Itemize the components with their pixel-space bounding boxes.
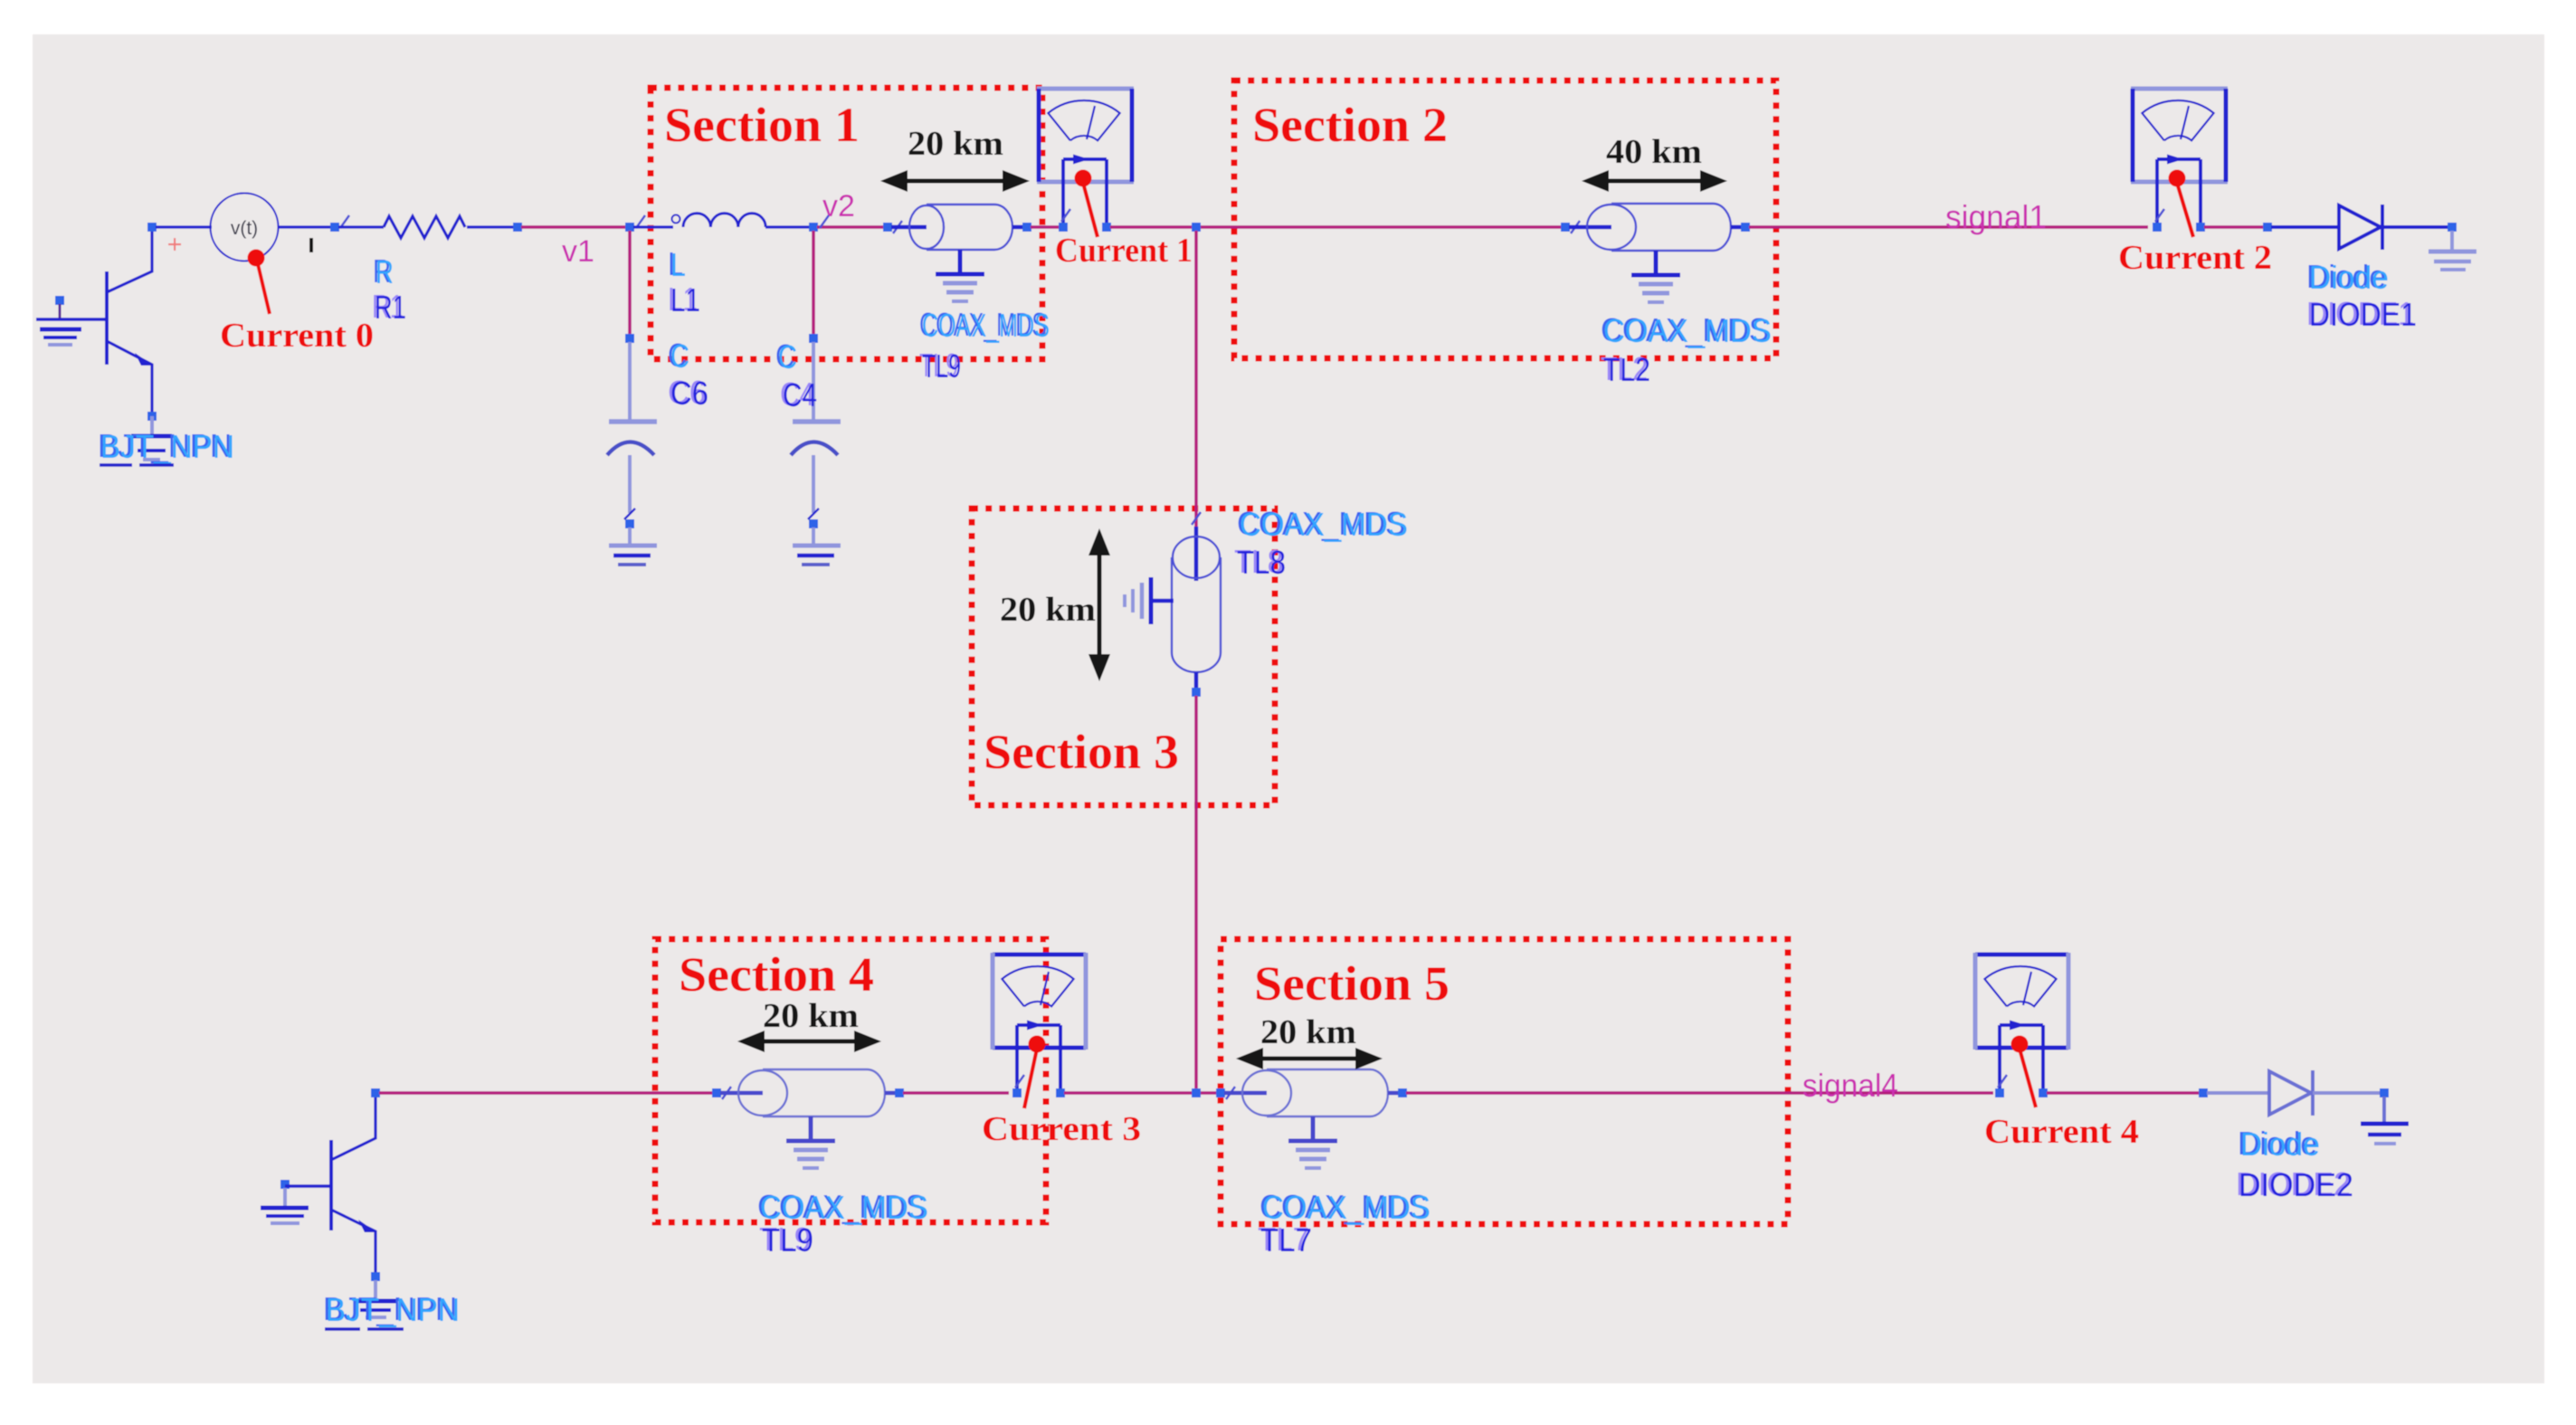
svg-text:v(t): v(t) xyxy=(231,218,258,239)
svg-text:Section 5: Section 5 xyxy=(1254,956,1450,1011)
svg-text:C6: C6 xyxy=(670,375,708,412)
svg-text:DIODE1: DIODE1 xyxy=(2309,296,2417,333)
svg-text:R: R xyxy=(375,253,394,290)
svg-text:Diode: Diode xyxy=(2240,1126,2320,1163)
svg-text:Section 4: Section 4 xyxy=(679,947,874,1002)
svg-text:DIODE2: DIODE2 xyxy=(2239,1166,2353,1203)
svg-text:TL7: TL7 xyxy=(1260,1221,1312,1259)
svg-text:C: C xyxy=(778,338,797,375)
svg-text:R1: R1 xyxy=(375,289,406,326)
svg-text:COAX_MDS: COAX_MDS xyxy=(922,307,1050,344)
svg-text:20 km: 20 km xyxy=(908,125,1003,163)
svg-text:Diode: Diode xyxy=(2309,259,2389,296)
svg-text:COAX_MDS: COAX_MDS xyxy=(1603,312,1772,349)
svg-text:signal1: signal1 xyxy=(1945,198,2047,235)
svg-text:TL9: TL9 xyxy=(762,1221,813,1259)
svg-text:BJT_NPN: BJT_NPN xyxy=(326,1291,460,1328)
svg-text:Current 2: Current 2 xyxy=(2118,239,2272,277)
svg-text:v1: v1 xyxy=(562,234,594,269)
svg-text:20 km: 20 km xyxy=(1260,1013,1356,1051)
svg-text:Section 3: Section 3 xyxy=(984,725,1179,779)
svg-text:+: + xyxy=(166,230,182,260)
svg-text:Current 3: Current 3 xyxy=(982,1110,1141,1148)
svg-text:40 km: 40 km xyxy=(1606,133,1702,171)
svg-text:Section 2: Section 2 xyxy=(1252,98,1448,152)
svg-text:20 km: 20 km xyxy=(1000,591,1096,629)
svg-text:Current 1: Current 1 xyxy=(1055,232,1193,270)
svg-text:C: C xyxy=(670,337,689,375)
svg-text:L: L xyxy=(670,246,686,283)
svg-text:TL9: TL9 xyxy=(922,347,961,385)
svg-text:20 km: 20 km xyxy=(763,997,859,1035)
svg-text:Current 0: Current 0 xyxy=(220,317,374,355)
svg-text:TL8: TL8 xyxy=(1237,544,1286,581)
svg-text:TL2: TL2 xyxy=(1603,351,1650,388)
svg-text:COAX_MDS: COAX_MDS xyxy=(1240,506,1408,543)
svg-text:L1: L1 xyxy=(670,281,700,318)
svg-text:BJT_NPN: BJT_NPN xyxy=(100,428,234,465)
svg-text:signal4: signal4 xyxy=(1802,1067,1898,1104)
svg-text:Current 4: Current 4 xyxy=(1984,1113,2139,1151)
svg-text:C4: C4 xyxy=(783,376,817,413)
svg-text:Section 1: Section 1 xyxy=(664,98,860,152)
